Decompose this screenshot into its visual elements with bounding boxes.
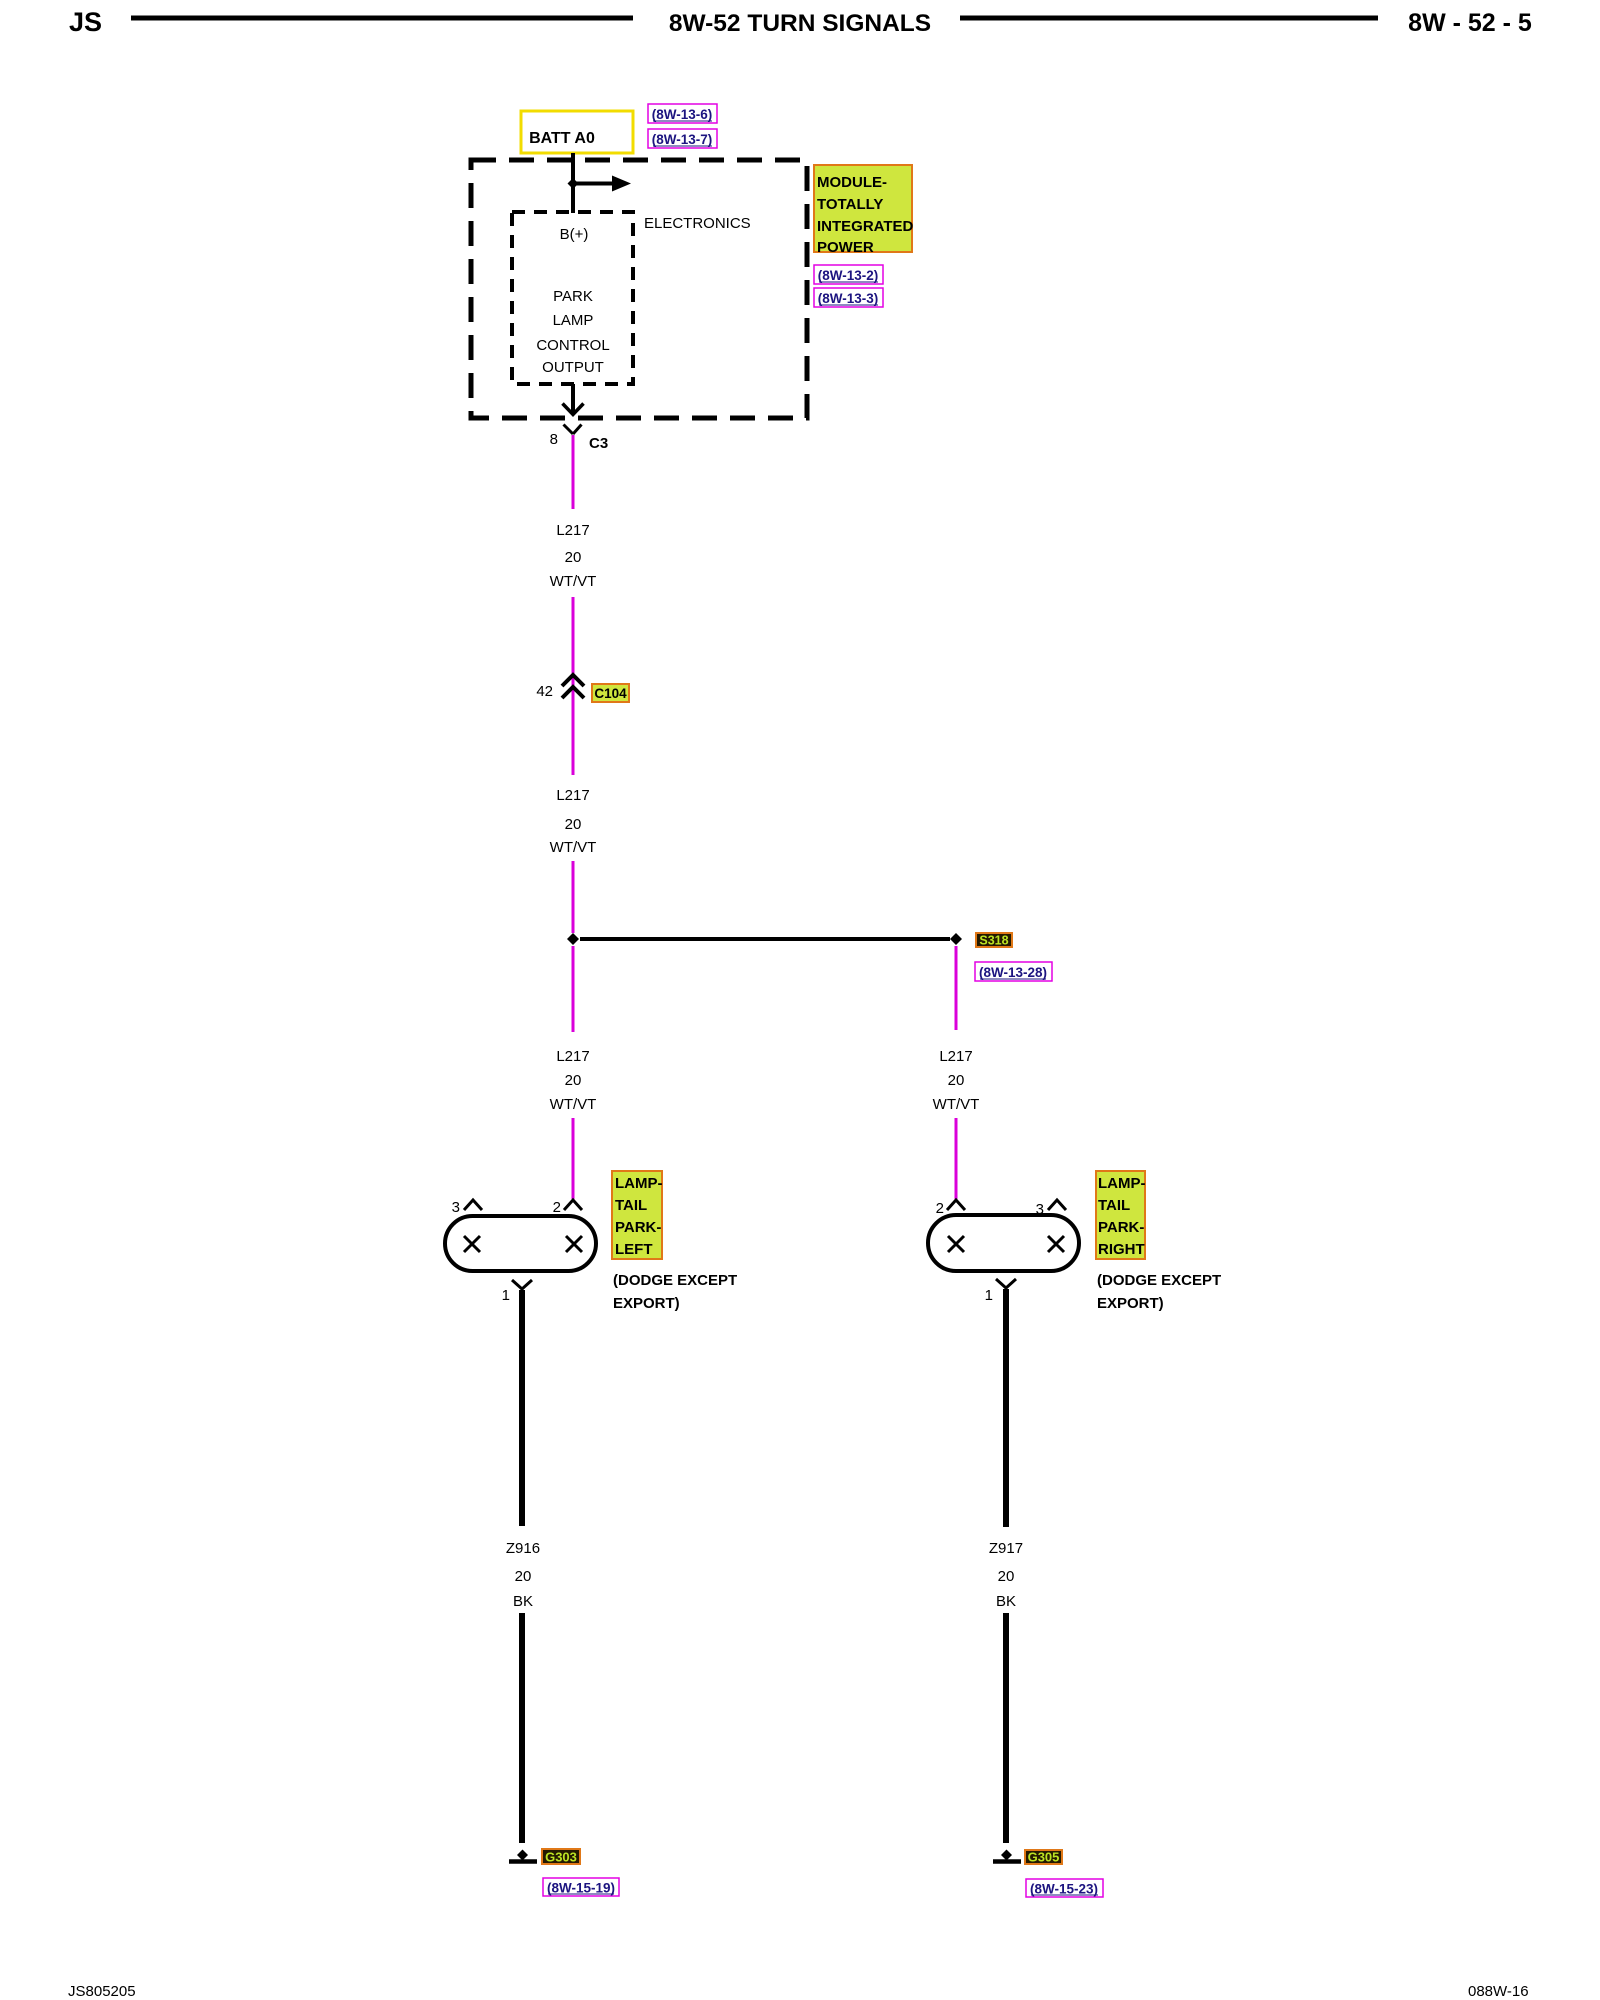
link 8W-13-28 — [975, 962, 1052, 981]
svg-text:(8W-13-7): (8W-13-7) — [652, 132, 713, 147]
svg-text:BATT A0: BATT A0 — [529, 130, 595, 147]
svg-text:Z916: Z916 — [506, 1540, 540, 1557]
svg-text:B(+): B(+) — [560, 226, 589, 243]
wire: right branch to lamp (magenta) — [955, 1118, 958, 1199]
svg-text:8W-52 TURN SIGNALS: 8W-52 TURN SIGNALS — [669, 10, 931, 37]
svg-text:(8W-13-2): (8W-13-2) — [818, 268, 879, 283]
wire Z916 segment 1 (black) — [519, 1290, 525, 1526]
wire: module output with arrowhead — [563, 384, 584, 415]
wire label L217 20 WT/VT — [550, 787, 597, 856]
link 8W-15-23 — [1026, 1879, 1103, 1897]
connector C3 pin 8 — [550, 425, 609, 453]
svg-text:EXPORT): EXPORT) — [1097, 1295, 1164, 1312]
wire: left branch below splice (magenta) — [572, 946, 575, 1032]
link 8W-13-3 — [814, 288, 883, 307]
svg-text:LEFT: LEFT — [615, 1241, 653, 1258]
svg-text:POWER: POWER — [817, 239, 874, 256]
svg-text:WT/VT: WT/VT — [933, 1096, 980, 1113]
svg-text:3: 3 — [452, 1199, 460, 1216]
wire label L217 20 WT/VT (right) — [933, 1048, 980, 1113]
link 8W-13-2 — [814, 265, 883, 284]
svg-text:ELECTRONICS: ELECTRONICS — [644, 215, 751, 232]
link 8W-13-7 — [648, 129, 717, 148]
svg-text:WT/VT: WT/VT — [550, 573, 597, 590]
label lamp left (green) — [612, 1171, 663, 1259]
svg-text:(8W-13-28): (8W-13-28) — [979, 965, 1047, 980]
svg-text:20: 20 — [565, 549, 582, 566]
label PARK LAMP CONTROL OUTPUT — [536, 288, 609, 376]
svg-text:42: 42 — [536, 683, 553, 700]
wire label L217 20 WT/VT (left) — [550, 1048, 597, 1113]
svg-text:L217: L217 — [939, 1048, 972, 1065]
svg-text:1: 1 — [985, 1287, 993, 1304]
ground G305 — [993, 1850, 1062, 1865]
svg-text:TAIL: TAIL — [1098, 1197, 1130, 1214]
module U1: totally integrated power module (outer dashed box) — [471, 160, 807, 418]
wire Z917 segment 1 (black) — [1003, 1289, 1009, 1527]
svg-text:G303: G303 — [545, 1850, 577, 1865]
svg-text:LAMP: LAMP — [553, 312, 594, 329]
svg-text:(8W-15-19): (8W-15-19) — [547, 1881, 615, 1896]
wire: right branch below splice (magenta) — [955, 946, 958, 1030]
module name label (green) — [814, 165, 914, 256]
svg-text:BK: BK — [996, 1593, 1016, 1610]
svg-text:INTEGRATED: INTEGRATED — [817, 218, 914, 235]
wire label Z916 20 BK — [506, 1540, 540, 1610]
footer sheet ids — [68, 1983, 1529, 2000]
svg-text:C3: C3 — [589, 435, 608, 452]
svg-text:CONTROL: CONTROL — [536, 337, 609, 354]
lamp E1: tail/park left — [445, 1199, 596, 1304]
svg-text:TOTALLY: TOTALLY — [817, 196, 883, 213]
svg-text:(8W-13-3): (8W-13-3) — [818, 291, 879, 306]
node: internal B(+) junction — [568, 178, 579, 189]
svg-text:(DODGE EXCEPT: (DODGE EXCEPT — [1097, 1272, 1221, 1289]
svg-text:WT/VT: WT/VT — [550, 1096, 597, 1113]
svg-text:(8W-13-6): (8W-13-6) — [652, 107, 713, 122]
svg-text:20: 20 — [515, 1568, 532, 1585]
svg-text:20: 20 — [565, 1072, 582, 1089]
ground G303 — [509, 1849, 580, 1865]
svg-text:L217: L217 — [556, 522, 589, 539]
svg-text:WT/VT: WT/VT — [550, 839, 597, 856]
wire label L217 20 WT/VT — [550, 522, 597, 590]
svg-text:JS: JS — [69, 7, 102, 37]
svg-text:20: 20 — [565, 816, 582, 833]
wire L217 segment 2 (magenta) — [572, 597, 575, 775]
header title block — [69, 7, 1532, 37]
svg-text:2: 2 — [936, 1200, 944, 1217]
svg-text:TAIL: TAIL — [615, 1197, 647, 1214]
svg-text:L217: L217 — [556, 1048, 589, 1065]
svg-text:MODULE-: MODULE- — [817, 174, 887, 191]
svg-text:S318: S318 — [979, 934, 1008, 948]
svg-text:BK: BK — [513, 1593, 533, 1610]
label dodge except export (right) — [1097, 1272, 1221, 1312]
wire: BATT A0 to module internal — [571, 153, 575, 213]
svg-text:088W-16: 088W-16 — [1468, 1983, 1529, 2000]
wire Z916 segment 2 (black) — [519, 1613, 525, 1843]
svg-text:LAMP-: LAMP- — [615, 1175, 663, 1192]
svg-text:G305: G305 — [1028, 1850, 1060, 1865]
svg-text:8: 8 — [550, 431, 558, 448]
svg-text:RIGHT: RIGHT — [1098, 1241, 1145, 1258]
svg-text:LAMP-: LAMP- — [1098, 1175, 1146, 1192]
svg-text:2: 2 — [553, 1199, 561, 1216]
svg-text:1: 1 — [502, 1287, 510, 1304]
connector C104 pin 42 (inline double chevron) — [536, 675, 629, 702]
wire label Z917 20 BK — [989, 1540, 1023, 1610]
wire L217 segment 4 (magenta) — [572, 861, 575, 933]
lamp E2: tail/park right — [928, 1200, 1079, 1304]
wire Z917 segment 2 (black) — [1003, 1613, 1009, 1843]
wire: internal feed arrow — [573, 176, 631, 192]
svg-text:Z917: Z917 — [989, 1540, 1023, 1557]
splice S318 — [567, 933, 1012, 948]
label lamp right (green) — [1096, 1171, 1146, 1259]
link 8W-13-6 — [648, 104, 717, 123]
block: park lamp control output (inner dashed box) — [512, 212, 633, 384]
svg-text:20: 20 — [948, 1072, 965, 1089]
wire L217 segment 1 (magenta) — [572, 435, 575, 509]
svg-text:PARK: PARK — [553, 288, 593, 305]
svg-text:(DODGE EXCEPT: (DODGE EXCEPT — [613, 1272, 737, 1289]
svg-text:(8W-15-23): (8W-15-23) — [1030, 1882, 1098, 1897]
svg-text:L217: L217 — [556, 787, 589, 804]
fuse BATT A0 — [521, 111, 633, 153]
svg-text:C104: C104 — [594, 686, 627, 701]
svg-text:OUTPUT: OUTPUT — [542, 359, 604, 376]
link 8W-15-19 — [543, 1878, 619, 1896]
label dodge except export (left) — [613, 1272, 737, 1312]
svg-text:PARK-: PARK- — [615, 1219, 661, 1236]
svg-text:PARK-: PARK- — [1098, 1219, 1144, 1236]
wire: left branch to lamp (magenta) — [572, 1118, 575, 1199]
svg-text:20: 20 — [998, 1568, 1015, 1585]
svg-text:JS805205: JS805205 — [68, 1983, 136, 2000]
svg-text:8W - 52 - 5: 8W - 52 - 5 — [1408, 9, 1532, 37]
svg-text:EXPORT): EXPORT) — [613, 1295, 680, 1312]
